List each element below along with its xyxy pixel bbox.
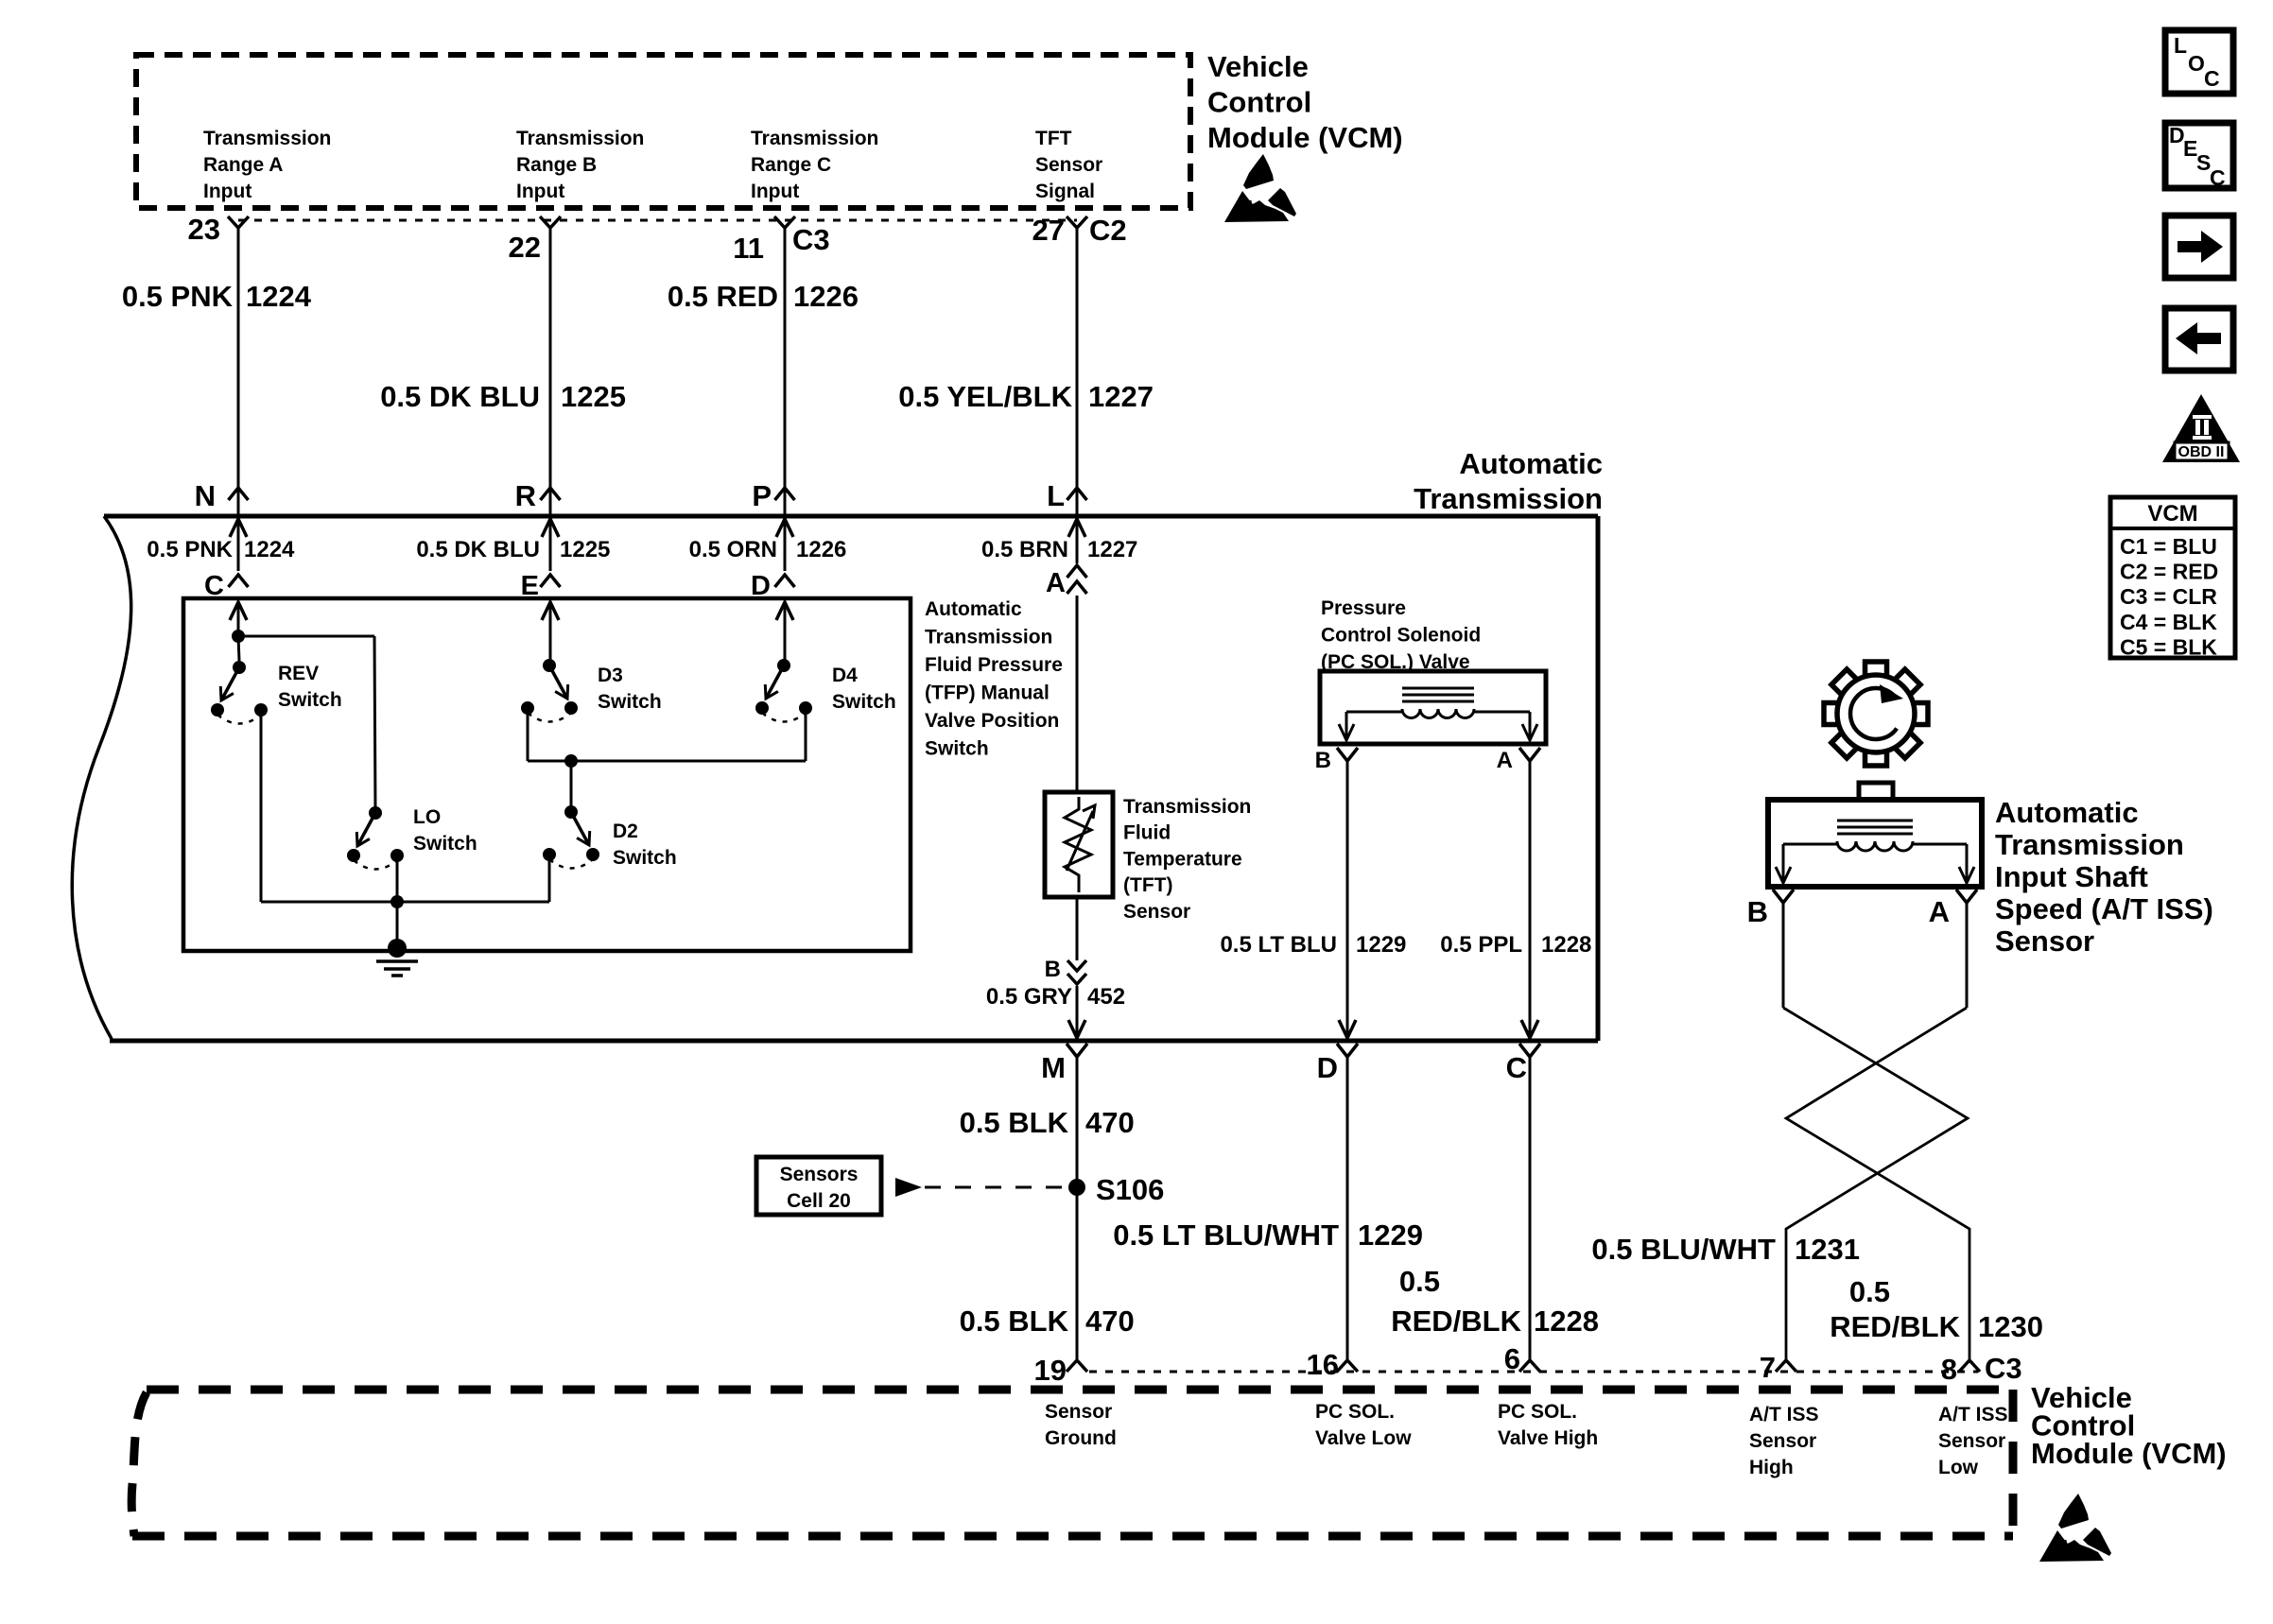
- svg-text:High: High: [1749, 1457, 1794, 1478]
- svg-text:(TFT): (TFT): [1123, 874, 1172, 896]
- svg-text:7: 7: [1760, 1351, 1776, 1384]
- svg-text:S106: S106: [1096, 1173, 1164, 1206]
- svg-text:LO: LO: [413, 806, 441, 828]
- svg-text:19: 19: [1034, 1354, 1067, 1387]
- svg-text:B: B: [1045, 957, 1061, 982]
- svg-text:Range C: Range C: [751, 154, 831, 176]
- svg-text:P: P: [752, 479, 772, 512]
- svg-text:0.5 ORN: 0.5 ORN: [689, 537, 777, 562]
- svg-text:8: 8: [1941, 1353, 1957, 1386]
- svg-text:Cell 20: Cell 20: [787, 1190, 851, 1212]
- svg-text:0.5 DK BLU: 0.5 DK BLU: [380, 380, 540, 413]
- svg-text:C: C: [2210, 165, 2226, 190]
- svg-text:Transmission: Transmission: [1123, 796, 1251, 818]
- svg-text:11: 11: [733, 232, 764, 265]
- svg-text:Switch: Switch: [925, 738, 989, 760]
- svg-text:RED/BLK: RED/BLK: [1391, 1304, 1521, 1338]
- svg-text:Switch: Switch: [598, 691, 662, 713]
- svg-text:22: 22: [509, 231, 541, 264]
- svg-text:VCM: VCM: [2147, 501, 2197, 527]
- svg-text:Transmission: Transmission: [1995, 828, 2184, 861]
- svg-text:Sensor: Sensor: [1045, 1401, 1112, 1423]
- svg-text:0.5 BLK: 0.5 BLK: [960, 1304, 1069, 1338]
- svg-text:REV: REV: [278, 663, 319, 684]
- svg-text:Sensor: Sensor: [1035, 154, 1102, 176]
- svg-text:0.5 BLK: 0.5 BLK: [960, 1106, 1069, 1139]
- svg-text:R: R: [515, 479, 536, 512]
- svg-text:Valve Low: Valve Low: [1315, 1427, 1412, 1449]
- svg-text:0.5 GRY: 0.5 GRY: [986, 984, 1072, 1010]
- svg-text:0.5 PNK: 0.5 PNK: [147, 537, 233, 562]
- svg-text:27: 27: [1032, 214, 1065, 247]
- svg-text:1225: 1225: [561, 380, 626, 413]
- svg-text:(TFP) Manual: (TFP) Manual: [925, 682, 1050, 704]
- svg-text:A/T ISS: A/T ISS: [1938, 1404, 2008, 1425]
- svg-text:C2: C2: [1089, 214, 1127, 247]
- svg-text:Control: Control: [1207, 86, 1311, 119]
- svg-text:D3: D3: [598, 665, 623, 686]
- svg-text:Ground: Ground: [1045, 1427, 1117, 1449]
- svg-text:Input: Input: [516, 181, 564, 202]
- svg-text:Fluid: Fluid: [1123, 822, 1171, 844]
- svg-text:C: C: [1506, 1051, 1527, 1084]
- svg-text:Switch: Switch: [832, 691, 896, 713]
- svg-text:1224: 1224: [244, 537, 295, 562]
- svg-text:0.5 BLU/WHT: 0.5 BLU/WHT: [1591, 1233, 1776, 1266]
- svg-text:1226: 1226: [793, 280, 859, 313]
- svg-text:Range B: Range B: [516, 154, 597, 176]
- svg-text:0.5: 0.5: [1399, 1265, 1440, 1298]
- svg-text:N: N: [195, 479, 216, 512]
- svg-text:Transmission: Transmission: [1414, 482, 1603, 515]
- svg-text:Low: Low: [1938, 1457, 1979, 1478]
- svg-text:D: D: [1317, 1051, 1338, 1084]
- svg-text:A: A: [1497, 748, 1513, 773]
- svg-text:0.5 PNK: 0.5 PNK: [122, 280, 234, 313]
- svg-text:Input: Input: [751, 181, 799, 202]
- svg-text:A: A: [1929, 895, 1950, 928]
- svg-text:0.5 BRN: 0.5 BRN: [981, 537, 1068, 562]
- svg-text:L: L: [2174, 33, 2187, 58]
- svg-text:1228: 1228: [1534, 1304, 1599, 1338]
- svg-text:TFT: TFT: [1035, 128, 1072, 149]
- svg-text:Sensor: Sensor: [1123, 901, 1190, 923]
- svg-text:O: O: [2188, 51, 2205, 76]
- svg-text:Valve Position: Valve Position: [925, 710, 1059, 732]
- svg-text:C2 = RED: C2 = RED: [2120, 560, 2218, 584]
- svg-text:C: C: [2204, 66, 2220, 91]
- svg-text:Switch: Switch: [413, 833, 477, 855]
- svg-text:Input: Input: [203, 181, 252, 202]
- svg-text:L: L: [1047, 479, 1065, 512]
- svg-text:D4: D4: [832, 665, 858, 686]
- svg-text:0.5: 0.5: [1849, 1275, 1890, 1308]
- svg-text:1226: 1226: [796, 537, 846, 562]
- svg-text:Valve High: Valve High: [1498, 1427, 1598, 1449]
- svg-text:Fluid Pressure: Fluid Pressure: [925, 654, 1063, 676]
- svg-text:B: B: [1747, 895, 1768, 928]
- svg-text:1225: 1225: [560, 537, 610, 562]
- svg-text:Temperature: Temperature: [1123, 848, 1242, 870]
- svg-text:Automatic: Automatic: [1995, 796, 2139, 829]
- svg-text:1229: 1229: [1358, 1218, 1423, 1252]
- svg-text:Sensors: Sensors: [780, 1164, 859, 1185]
- svg-text:OBD II: OBD II: [2178, 444, 2225, 460]
- svg-text:C3: C3: [1985, 1352, 2022, 1385]
- svg-text:Switch: Switch: [613, 847, 677, 869]
- svg-text:16: 16: [1307, 1348, 1339, 1381]
- svg-text:C3: C3: [792, 223, 830, 256]
- svg-text:Sensor: Sensor: [1938, 1430, 2005, 1452]
- svg-text:6: 6: [1504, 1342, 1520, 1375]
- svg-text:452: 452: [1087, 984, 1125, 1010]
- svg-text:D2: D2: [613, 821, 638, 842]
- svg-text:0.5 LT BLU/WHT: 0.5 LT BLU/WHT: [1113, 1218, 1339, 1252]
- svg-text:RED/BLK: RED/BLK: [1830, 1310, 1960, 1343]
- svg-text:Range A: Range A: [203, 154, 283, 176]
- svg-text:Switch: Switch: [278, 689, 342, 711]
- svg-text:1231: 1231: [1795, 1233, 1860, 1266]
- svg-text:Sensor: Sensor: [1995, 924, 2094, 958]
- svg-text:A: A: [1046, 568, 1066, 598]
- svg-text:1228: 1228: [1541, 932, 1591, 958]
- svg-text:PC SOL.: PC SOL.: [1315, 1401, 1395, 1423]
- svg-text:Sensor: Sensor: [1749, 1430, 1816, 1452]
- svg-text:B: B: [1315, 748, 1331, 773]
- svg-text:A/T ISS: A/T ISS: [1749, 1404, 1819, 1425]
- svg-text:C5 = BLK: C5 = BLK: [2120, 634, 2217, 659]
- svg-text:1224: 1224: [246, 280, 312, 313]
- svg-text:1229: 1229: [1356, 932, 1406, 958]
- svg-text:Control Solenoid: Control Solenoid: [1321, 625, 1481, 647]
- svg-text:Automatic: Automatic: [925, 598, 1022, 620]
- svg-text:Transmission: Transmission: [925, 627, 1052, 648]
- svg-text:0.5 LT BLU: 0.5 LT BLU: [1220, 932, 1337, 958]
- svg-text:0.5 RED: 0.5 RED: [668, 280, 778, 313]
- svg-text:Module (VCM): Module (VCM): [1207, 121, 1403, 154]
- svg-text:0.5 DK BLU: 0.5 DK BLU: [416, 537, 540, 562]
- svg-text:Automatic: Automatic: [1459, 447, 1603, 480]
- svg-text:M: M: [1041, 1051, 1066, 1084]
- svg-text:Signal: Signal: [1035, 181, 1095, 202]
- svg-text:Module (VCM): Module (VCM): [2031, 1437, 2227, 1470]
- svg-text:C1 = BLU: C1 = BLU: [2120, 534, 2217, 559]
- svg-text:Input Shaft: Input Shaft: [1995, 860, 2148, 893]
- svg-text:1227: 1227: [1087, 537, 1137, 562]
- svg-text:1227: 1227: [1088, 380, 1154, 413]
- svg-text:Transmission: Transmission: [203, 128, 331, 149]
- svg-text:470: 470: [1085, 1106, 1135, 1139]
- svg-text:Transmission: Transmission: [751, 128, 878, 149]
- svg-text:Pressure: Pressure: [1321, 597, 1406, 619]
- svg-text:1230: 1230: [1978, 1310, 2043, 1343]
- svg-text:470: 470: [1085, 1304, 1135, 1338]
- svg-text:C3 = CLR: C3 = CLR: [2120, 584, 2217, 609]
- svg-text:Vehicle: Vehicle: [1207, 50, 1309, 83]
- svg-text:Speed (A/T ISS): Speed (A/T ISS): [1995, 892, 2213, 925]
- svg-text:23: 23: [188, 213, 220, 246]
- svg-text:C4 = BLK: C4 = BLK: [2120, 610, 2217, 634]
- svg-text:Transmission: Transmission: [516, 128, 644, 149]
- svg-text:0.5 PPL: 0.5 PPL: [1440, 932, 1522, 958]
- svg-text:PC SOL.: PC SOL.: [1498, 1401, 1577, 1423]
- svg-text:0.5 YEL/BLK: 0.5 YEL/BLK: [898, 380, 1072, 413]
